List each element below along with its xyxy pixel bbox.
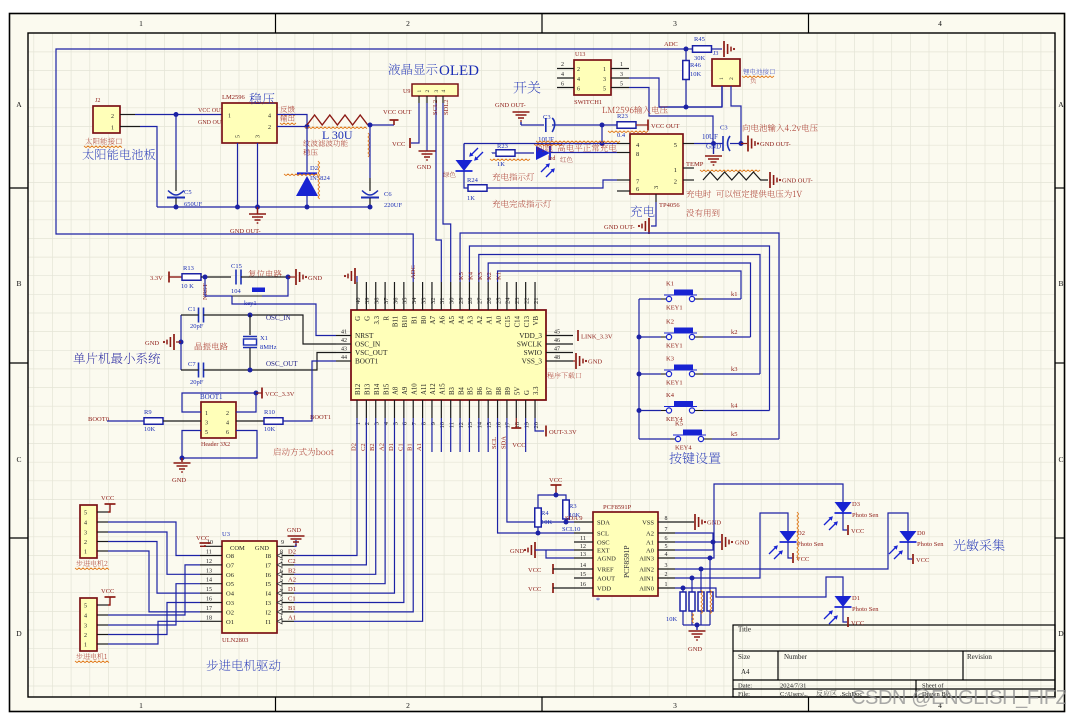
label 锂电池接口 负 (743, 69, 775, 75)
svg-text:4: 4 (665, 552, 668, 558)
resistor R23 0.4 (617, 122, 636, 129)
wire U13 pin3 to J3 (629, 78, 722, 107)
svg-text:VCC: VCC (549, 477, 562, 484)
svg-text:A5: A5 (449, 315, 456, 324)
svg-text:30: 30 (449, 298, 456, 305)
svg-text:10K: 10K (541, 519, 553, 526)
ground GND (charger) (713, 144, 715, 155)
svg-text:C15: C15 (231, 263, 242, 270)
wire D2 to VCC (788, 542, 792, 558)
power bars GND OUT- (thermistor) (769, 172, 771, 188)
wire D0 to VCC (908, 542, 912, 559)
svg-text:R46: R46 (690, 62, 702, 69)
wire R9 to header pin3 (163, 420, 201, 422)
ground symbol GND OUT- (rail) (257, 207, 259, 214)
wire K3 to net (703, 373, 760, 375)
power bars GND OUT- (battery node) (747, 136, 749, 152)
svg-text:5: 5 (84, 604, 87, 610)
wire ADC junction (684, 47, 689, 52)
label 开关 (514, 81, 541, 94)
svg-text:3: 3 (280, 597, 283, 603)
label LM2596输入电压 (602, 106, 667, 114)
svg-text:VCC: VCC (528, 586, 541, 593)
wire LM2596 pin4 output (277, 115, 307, 127)
svg-text:A8: A8 (393, 386, 400, 395)
svg-text:ULN2803: ULN2803 (222, 637, 248, 644)
switch K5 KEY4 (639, 438, 670, 440)
svg-text:39: 39 (364, 298, 371, 305)
wire TP4056 pin3 to GND OUT- (651, 202, 656, 226)
svg-text:33: 33 (420, 298, 427, 305)
svg-text:G: G (524, 390, 531, 395)
svg-text:4: 4 (577, 77, 580, 83)
connector J3 battery (712, 59, 740, 86)
svg-text:5: 5 (84, 511, 87, 517)
svg-text:A1: A1 (288, 614, 296, 621)
svg-text:3: 3 (673, 701, 677, 710)
wire ground rail GND OUT- (157, 206, 370, 208)
svg-text:2: 2 (268, 125, 271, 131)
label 太阳能电池板 (83, 149, 156, 160)
svg-text:1: 1 (620, 62, 623, 68)
svg-text:1: 1 (84, 550, 87, 556)
svg-text:11: 11 (206, 550, 212, 556)
svg-text:Header 3X2: Header 3X2 (201, 442, 230, 448)
svg-text:13: 13 (580, 552, 586, 558)
svg-text:28: 28 (467, 298, 474, 305)
svg-text:D2: D2 (351, 443, 358, 451)
svg-text:B9: B9 (505, 386, 512, 395)
svg-text:J3: J3 (713, 51, 718, 57)
wire net SCL2 OLED to MCU (435, 96, 437, 103)
wires motor2 to ULN outputs (108, 522, 200, 556)
svg-text:2024/7/31: 2024/7/31 (780, 683, 806, 690)
svg-text:k2: k2 (731, 329, 738, 336)
svg-text:GND: GND (287, 527, 301, 534)
svg-text:A2: A2 (379, 443, 386, 451)
svg-text:ADC: ADC (410, 265, 417, 279)
svg-text:COM: COM (230, 545, 245, 552)
svg-text:5: 5 (205, 430, 208, 436)
svg-text:K3: K3 (666, 356, 674, 363)
svg-text:I5: I5 (266, 581, 271, 588)
wire K5 to net (712, 438, 779, 440)
svg-text:AIN0: AIN0 (639, 586, 654, 593)
svg-text:A4: A4 (458, 315, 465, 324)
svg-text:4: 4 (441, 90, 447, 93)
resistor R4 10K (535, 508, 542, 527)
svg-text:A1: A1 (486, 316, 493, 324)
svg-text:17: 17 (505, 421, 512, 428)
wire R24 to TP4056 pin7 (487, 180, 617, 188)
wire inductor to output port (368, 124, 394, 126)
svg-text:4: 4 (84, 521, 87, 527)
svg-text:42: 42 (341, 338, 347, 344)
photodiode D1 Photo Sen (835, 596, 852, 607)
wire crystal left rail (180, 315, 182, 370)
svg-text:VCC OUT: VCC OUT (651, 123, 679, 130)
svg-text:14: 14 (477, 421, 484, 428)
svg-text:10 K: 10 K (181, 283, 194, 290)
svg-text:8MHz: 8MHz (260, 344, 277, 351)
wire net SDA to PCF (507, 418, 574, 522)
svg-text:4: 4 (84, 614, 87, 620)
svg-text:B0: B0 (421, 315, 428, 324)
svg-text:OSC: OSC (597, 540, 610, 547)
power port VCC (motor2) (108, 504, 110, 512)
svg-text:6: 6 (226, 430, 229, 436)
svg-text:B2: B2 (369, 443, 376, 451)
resistor R3 10K (563, 500, 570, 519)
svg-text:AIN3: AIN3 (639, 556, 654, 563)
svg-text:26: 26 (486, 297, 493, 304)
svg-text:1K: 1K (497, 161, 505, 168)
svg-text:9: 9 (281, 540, 284, 546)
svg-text:led: led (548, 156, 555, 162)
svg-text:1: 1 (228, 114, 231, 120)
svg-text:38: 38 (374, 298, 381, 305)
wire MCU bottom stepper nets (294, 418, 357, 556)
svg-text:VSS: VSS (642, 520, 654, 527)
MCU right pins 45-48 (546, 335, 573, 337)
svg-text:A2: A2 (646, 531, 654, 538)
svg-text:Title: Title (738, 626, 751, 634)
wire LM2596 pin2 output (277, 126, 307, 128)
svg-text:VDD_3: VDD_3 (519, 332, 542, 340)
svg-text:GND: GND (688, 646, 702, 653)
svg-text:SCL: SCL (597, 531, 609, 538)
label 按键设置 (669, 452, 720, 464)
svg-text:R9: R9 (144, 409, 152, 416)
ground MCU pin40 (356, 276, 358, 282)
svg-text:C1: C1 (188, 306, 196, 313)
svg-text:3: 3 (374, 422, 381, 425)
wire R23 node down to TP4056 pin4 (601, 125, 603, 144)
svg-text:SCL10: SCL10 (562, 526, 580, 533)
wire U13 pin5 to charger input (629, 88, 713, 144)
svg-text:C7: C7 (188, 361, 196, 368)
svg-text:9: 9 (430, 422, 437, 425)
svg-text:2: 2 (561, 62, 564, 68)
wire D3 to VCC (843, 513, 847, 530)
MCU U4 STM32 body (351, 310, 546, 400)
charger U2 TP4056 (630, 134, 683, 194)
svg-text:VB: VB (533, 316, 540, 326)
wire keys common bus (638, 299, 640, 439)
power bars GND (reset) (295, 269, 297, 285)
power bars GND (PCF VSS) (675, 521, 694, 523)
svg-text:220UF: 220UF (384, 202, 402, 209)
svg-text:15: 15 (580, 572, 586, 578)
svg-text:5: 5 (665, 544, 668, 550)
svg-text:1: 1 (111, 126, 114, 132)
label 充电指示灯 (492, 173, 534, 181)
svg-text:40: 40 (355, 298, 362, 305)
wire battery node to GND OUT- (730, 143, 741, 145)
MCU left pins 41-44 (336, 335, 351, 337)
svg-text:SCL: SCL (491, 437, 498, 449)
diode D2 IN5824 (306, 127, 308, 173)
svg-text:GND OUT-: GND OUT- (760, 141, 791, 148)
switch K1 KEY1 (639, 298, 661, 300)
svg-text:k5: k5 (731, 431, 738, 438)
svg-text:1: 1 (205, 411, 208, 417)
svg-text:13: 13 (206, 568, 212, 574)
svg-text:VCC: VCC (851, 528, 864, 535)
svg-text:K3: K3 (477, 272, 484, 280)
svg-text:3: 3 (673, 19, 677, 28)
svg-text:20: 20 (533, 422, 540, 429)
power port VCC (MCU pin18) (515, 418, 517, 428)
label 绿色 (443, 172, 455, 178)
wire TP4056 pin5 to battery node (694, 143, 723, 145)
svg-text:EXT: EXT (597, 548, 610, 555)
pins ULN right stubs, numbers, net labels (277, 545, 294, 547)
zone tick marks (275, 14, 277, 34)
svg-text:U3: U3 (222, 531, 230, 538)
svg-text:D0: D0 (917, 530, 925, 537)
wire reset node (201, 276, 231, 278)
svg-text:C1: C1 (397, 443, 404, 451)
svg-text:I6: I6 (266, 572, 272, 579)
power bars GND OUT- (charger gnd) (648, 218, 650, 234)
wire OSC_OUT (204, 353, 337, 371)
svg-text:PCF8591P: PCF8591P (622, 545, 631, 578)
svg-text:K2: K2 (486, 272, 493, 280)
svg-text:O3: O3 (226, 600, 234, 607)
wire K4 to net (703, 410, 770, 412)
svg-text:KEY1: KEY1 (666, 305, 683, 312)
svg-text:5V: 5V (514, 387, 521, 395)
svg-text:A2: A2 (288, 577, 296, 584)
svg-text:SDA 9: SDA 9 (565, 515, 583, 522)
svg-text:10: 10 (439, 422, 446, 429)
svg-text:AIN1: AIN1 (639, 576, 654, 583)
svg-text:A15: A15 (440, 383, 447, 395)
svg-text:12: 12 (580, 544, 586, 550)
svg-text:GND: GND (588, 359, 602, 366)
svg-text:16: 16 (580, 582, 586, 588)
svg-text:B6: B6 (477, 386, 484, 395)
power port VCC OUT (inductor output) (393, 120, 395, 125)
wire U9 pin1 to VCC (418, 96, 420, 103)
svg-text:A0: A0 (646, 548, 654, 555)
svg-text:3: 3 (665, 563, 668, 569)
svg-text:2: 2 (226, 411, 229, 417)
power port VCC OUT (charger) (636, 124, 648, 126)
svg-text:SDA: SDA (500, 436, 507, 449)
power port VCC (OLED) (409, 138, 411, 148)
svg-text:34: 34 (411, 297, 418, 304)
svg-text:2: 2 (674, 179, 677, 186)
svg-text:20pF: 20pF (190, 323, 204, 330)
capacitor C1 20pF (198, 308, 200, 323)
svg-text:6: 6 (561, 82, 564, 88)
wire D1 to VCC (843, 607, 847, 622)
capacitor C7 20pF (198, 363, 200, 378)
svg-text:I1: I1 (266, 619, 271, 626)
svg-text:GND: GND (735, 540, 749, 547)
svg-text:R45: R45 (694, 36, 705, 43)
svg-text:3: 3 (84, 531, 87, 537)
photodiode D2 Photo Sen (780, 531, 797, 542)
svg-text:31: 31 (439, 298, 446, 305)
svg-text:A0: A0 (496, 315, 503, 324)
svg-text:37: 37 (383, 297, 390, 304)
svg-text:22: 22 (523, 298, 530, 305)
svg-text:2: 2 (111, 114, 114, 120)
svg-text:8: 8 (665, 516, 668, 522)
svg-text:ADC: ADC (664, 41, 678, 48)
svg-text:*: * (596, 596, 600, 605)
svg-text:B15: B15 (383, 383, 390, 395)
svg-text:0.4: 0.4 (617, 132, 626, 139)
label 启动方式为boot (273, 448, 333, 456)
thermistor zigzag to GND OUT- (703, 172, 768, 180)
svg-text:K4: K4 (467, 271, 474, 280)
svg-text:10K: 10K (144, 426, 156, 433)
svg-text:R: R (383, 316, 390, 321)
capacitor C6 220UF (369, 125, 371, 178)
svg-text:VCC: VCC (101, 495, 114, 502)
svg-text:4: 4 (938, 19, 942, 28)
svg-text:2: 2 (84, 540, 87, 546)
pins TP4056 stubs (617, 143, 630, 145)
crystal X1 8MHz (249, 315, 251, 335)
svg-text:C:\Users\..: C:\Users\.. (780, 691, 808, 698)
resistor R9 10K (107, 420, 144, 422)
svg-text:OLED: OLED (439, 63, 479, 79)
svg-text:k4: k4 (731, 403, 738, 410)
svg-text:11: 11 (449, 422, 456, 428)
svg-text:LM2596: LM2596 (222, 94, 246, 101)
svg-text:32: 32 (430, 298, 437, 305)
svg-text:45: 45 (554, 330, 560, 336)
wire OSC_IN (204, 315, 337, 344)
power bars GND (SWD) (573, 360, 575, 362)
svg-text:13: 13 (467, 422, 474, 429)
svg-text:B8: B8 (496, 386, 503, 395)
wire GND OUT- to bottom rail (140, 127, 157, 208)
connector J2 solar input (93, 106, 120, 133)
svg-text:SWCLK: SWCLK (517, 341, 543, 349)
svg-text:14: 14 (206, 578, 212, 584)
label 向电池输入4.2v电压 (743, 124, 818, 132)
svg-text:VSS_3: VSS_3 (522, 358, 543, 366)
svg-text:3: 3 (205, 421, 208, 427)
svg-text:3.3: 3.3 (374, 315, 381, 324)
svg-text:C5: C5 (184, 189, 192, 196)
wire J3 pin2 down to battery node (731, 86, 741, 144)
header 3X2 boot select (201, 402, 236, 438)
resistor R13 10 K (182, 274, 201, 281)
svg-text:A12: A12 (430, 383, 437, 395)
svg-text:O7: O7 (226, 562, 235, 569)
svg-text:6: 6 (665, 536, 668, 542)
svg-text:30K: 30K (694, 55, 706, 62)
svg-text:VCC_3.3V: VCC_3.3V (265, 391, 295, 398)
svg-text:23: 23 (514, 298, 521, 305)
svg-text:A11: A11 (421, 384, 428, 395)
power bars (R45) (723, 41, 725, 57)
svg-text:4: 4 (226, 421, 229, 427)
svg-text:D2: D2 (310, 165, 318, 172)
svg-text:2: 2 (406, 19, 410, 28)
wire net SDA2 OLED to MCU (442, 96, 444, 103)
svg-text:C6: C6 (384, 191, 392, 198)
label 液晶显示 (389, 63, 438, 74)
svg-text:K1: K1 (666, 281, 674, 288)
svg-text:Photo Sen: Photo Sen (917, 541, 944, 548)
label 问题高电平正常充电 (537, 144, 616, 152)
svg-text:A: A (1058, 100, 1064, 109)
svg-text:20pF: 20pF (190, 379, 204, 386)
svg-text:B11: B11 (393, 316, 400, 327)
wire C15 to GND (241, 276, 288, 278)
svg-text:3: 3 (256, 135, 262, 138)
svg-text:D1: D1 (388, 443, 395, 451)
svg-text:GND OUT-: GND OUT- (782, 178, 813, 185)
svg-text:AOUT: AOUT (597, 576, 615, 583)
label 充电时可以恒定提供电压为1V (686, 190, 802, 198)
svg-text:B1: B1 (411, 316, 418, 324)
svg-text:Photo Sen: Photo Sen (852, 606, 879, 613)
svg-text:12: 12 (458, 422, 465, 429)
svg-text:VCC OUT: VCC OUT (383, 109, 411, 116)
svg-text:VCC: VCC (196, 535, 209, 542)
svg-text:27: 27 (477, 297, 484, 304)
svg-text:12: 12 (206, 559, 212, 565)
svg-text:BOOT1: BOOT1 (200, 393, 223, 401)
svg-text:1: 1 (280, 615, 283, 621)
wire key1 to MCU NRST pin41 (232, 296, 336, 336)
svg-text:2: 2 (729, 77, 735, 80)
svg-text:O5: O5 (226, 581, 234, 588)
wire MCU bottom dangling stubs 9-15 (431, 418, 433, 452)
svg-text:D: D (16, 629, 22, 638)
svg-text:K5: K5 (458, 272, 465, 280)
svg-text:2: 2 (364, 422, 371, 425)
svg-text:K1: K1 (496, 272, 503, 280)
svg-text:B7: B7 (486, 386, 493, 395)
svg-text:2: 2 (280, 606, 283, 612)
svg-text:I3: I3 (266, 600, 271, 607)
switch K2 KEY1 (639, 336, 661, 338)
svg-text:O2: O2 (226, 609, 234, 616)
svg-text:6: 6 (280, 568, 283, 574)
svg-text:16: 16 (206, 597, 212, 603)
svg-text:5: 5 (236, 135, 242, 138)
svg-text:OSC_OUT: OSC_OUT (266, 360, 298, 368)
wire LED to R24 (464, 171, 468, 188)
svg-text:O6: O6 (226, 572, 235, 579)
wire switch C3 node to R23 (552, 124, 617, 126)
svg-text:SWIO: SWIO (524, 349, 542, 357)
svg-text:7: 7 (665, 527, 668, 533)
wire R10 to MCU BOOT1 pin44 (283, 361, 336, 421)
svg-text:B10: B10 (402, 315, 409, 327)
switch K3 KEY1 (639, 373, 661, 375)
svg-text:5: 5 (392, 422, 399, 425)
svg-text:3.3: 3.3 (533, 386, 540, 395)
svg-text:D2: D2 (288, 549, 296, 556)
svg-text:KEY1: KEY1 (666, 380, 683, 387)
svg-text:C2: C2 (288, 558, 296, 565)
svg-text:Date:: Date: (738, 683, 752, 690)
label 程序下载口 (547, 372, 581, 378)
svg-text:2: 2 (84, 633, 87, 639)
wire R4 to SCL (537, 527, 539, 533)
